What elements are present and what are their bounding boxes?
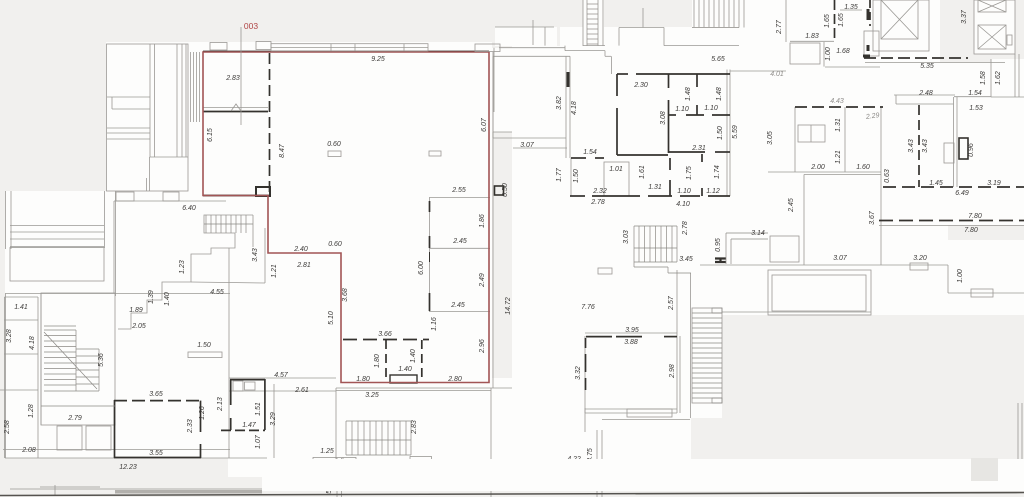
- svg-text:3.03: 3.03: [623, 230, 630, 244]
- svg-text:003: 003: [244, 21, 258, 31]
- svg-text:1.39: 1.39: [148, 290, 155, 304]
- svg-text:3.82: 3.82: [556, 96, 563, 110]
- svg-text:2.61: 2.61: [294, 387, 309, 394]
- svg-text:1.28: 1.28: [28, 404, 35, 418]
- svg-text:2.78: 2.78: [590, 199, 605, 206]
- svg-text:1.83: 1.83: [805, 33, 819, 40]
- svg-text:2.13: 2.13: [217, 397, 224, 412]
- svg-text:1.50: 1.50: [197, 342, 211, 349]
- svg-text:1.58: 1.58: [980, 71, 987, 85]
- svg-text:1.80: 1.80: [374, 354, 381, 368]
- svg-text:0.60: 0.60: [327, 141, 341, 148]
- svg-text:1.21: 1.21: [835, 150, 842, 164]
- svg-text:3.07: 3.07: [833, 255, 848, 262]
- svg-text:1.31: 1.31: [648, 184, 662, 191]
- svg-text:1.50: 1.50: [573, 169, 580, 183]
- svg-text:5.36: 5.36: [98, 353, 105, 367]
- svg-text:1.48: 1.48: [716, 87, 723, 101]
- svg-text:2.81: 2.81: [296, 262, 311, 269]
- svg-text:12.23: 12.23: [119, 464, 137, 471]
- svg-text:2.45: 2.45: [788, 198, 795, 213]
- svg-text:2.57: 2.57: [668, 295, 675, 311]
- svg-text:5.59: 5.59: [732, 125, 739, 139]
- svg-text:6.49: 6.49: [955, 190, 969, 197]
- svg-text:1.12: 1.12: [706, 188, 720, 195]
- svg-text:1.53: 1.53: [969, 105, 983, 112]
- svg-text:2.48: 2.48: [918, 90, 933, 97]
- svg-text:8.47: 8.47: [279, 143, 286, 158]
- svg-text:2.31: 2.31: [691, 145, 706, 152]
- svg-text:1.62: 1.62: [995, 71, 1002, 85]
- svg-text:0.50: 0.50: [502, 183, 509, 197]
- svg-text:2.55: 2.55: [451, 187, 466, 194]
- svg-text:1.47: 1.47: [242, 422, 257, 429]
- svg-text:1.80: 1.80: [356, 376, 370, 383]
- svg-text:3.45: 3.45: [679, 256, 693, 263]
- svg-text:3.29: 3.29: [270, 412, 277, 426]
- svg-text:0.60: 0.60: [328, 241, 342, 248]
- svg-text:9.25: 9.25: [371, 56, 385, 63]
- svg-text:3.65: 3.65: [149, 391, 163, 398]
- svg-text:3.43: 3.43: [908, 139, 915, 153]
- svg-text:3.95: 3.95: [625, 327, 639, 334]
- svg-text:3.05: 3.05: [767, 131, 774, 145]
- svg-text:2.77: 2.77: [776, 19, 783, 35]
- svg-text:3.55: 3.55: [149, 450, 163, 457]
- svg-text:2.83: 2.83: [225, 75, 240, 82]
- svg-text:2.08: 2.08: [21, 447, 36, 454]
- svg-text:5.10: 5.10: [328, 311, 335, 325]
- svg-text:4.18: 4.18: [29, 336, 36, 350]
- svg-text:3.14: 3.14: [751, 230, 765, 237]
- svg-text:3.28: 3.28: [6, 329, 13, 343]
- svg-text:4.43: 4.43: [830, 98, 844, 105]
- svg-text:1.50: 1.50: [717, 126, 724, 140]
- svg-text:1.86: 1.86: [479, 214, 486, 228]
- svg-text:1.60: 1.60: [856, 164, 870, 171]
- svg-text:6.00: 6.00: [418, 261, 425, 275]
- svg-text:4.10: 4.10: [676, 201, 690, 208]
- svg-text:2.33: 2.33: [187, 419, 194, 434]
- svg-text:1.26: 1.26: [199, 406, 206, 420]
- svg-text:1.74: 1.74: [714, 165, 721, 179]
- svg-text:3.08: 3.08: [660, 111, 667, 125]
- svg-text:2.79: 2.79: [67, 415, 82, 422]
- svg-text:1.77: 1.77: [556, 167, 563, 182]
- svg-text:7.76: 7.76: [581, 304, 595, 311]
- svg-text:5.65: 5.65: [711, 56, 725, 63]
- svg-text:2.30: 2.30: [633, 82, 648, 89]
- svg-text:4.57: 4.57: [274, 372, 289, 379]
- svg-text:0.63: 0.63: [884, 169, 891, 183]
- svg-text:2.40: 2.40: [293, 246, 308, 253]
- svg-text:1.40: 1.40: [410, 349, 417, 363]
- svg-text:2.05: 2.05: [131, 323, 146, 330]
- svg-text:6.40: 6.40: [182, 205, 196, 212]
- svg-text:2.83: 2.83: [411, 420, 418, 435]
- svg-text:14.72: 14.72: [505, 297, 512, 315]
- svg-text:1.40: 1.40: [164, 292, 171, 306]
- svg-text:4.55: 4.55: [210, 289, 224, 296]
- svg-text:6.07: 6.07: [481, 117, 488, 132]
- svg-text:1.23: 1.23: [179, 260, 186, 274]
- svg-text:2.80: 2.80: [447, 376, 462, 383]
- svg-text:4.01: 4.01: [770, 71, 784, 78]
- svg-text:1.00: 1.00: [957, 269, 964, 283]
- svg-text:3.19: 3.19: [987, 180, 1001, 187]
- svg-text:2.58: 2.58: [4, 420, 11, 435]
- svg-text:1.45: 1.45: [929, 180, 943, 187]
- svg-text:2.00: 2.00: [810, 164, 825, 171]
- svg-text:3.07: 3.07: [520, 142, 535, 149]
- svg-text:1.54: 1.54: [968, 90, 982, 97]
- svg-text:1.65: 1.65: [824, 14, 831, 28]
- svg-text:1.68: 1.68: [836, 48, 850, 55]
- svg-text:2.78: 2.78: [682, 221, 689, 236]
- svg-text:5.35: 5.35: [920, 63, 934, 70]
- svg-text:6.15: 6.15: [207, 128, 214, 142]
- svg-text:1.10: 1.10: [704, 105, 718, 112]
- svg-text:3.88: 3.88: [624, 339, 638, 346]
- svg-text:3.43: 3.43: [252, 248, 259, 262]
- svg-text:1.54: 1.54: [583, 149, 597, 156]
- svg-text:7.80: 7.80: [964, 227, 978, 234]
- svg-text:1.65: 1.65: [838, 13, 845, 27]
- svg-text:1.10: 1.10: [675, 106, 689, 113]
- svg-text:0.96: 0.96: [968, 143, 975, 157]
- svg-text:1.75: 1.75: [686, 166, 693, 180]
- svg-text:3.66: 3.66: [378, 331, 392, 338]
- svg-text:1.00: 1.00: [825, 47, 832, 61]
- svg-text:1.48: 1.48: [685, 87, 692, 101]
- svg-text:1.35: 1.35: [844, 4, 858, 11]
- svg-text:3.20: 3.20: [913, 255, 927, 262]
- svg-text:3.32: 3.32: [575, 366, 582, 380]
- svg-text:3.68: 3.68: [342, 288, 349, 302]
- svg-text:3.67: 3.67: [869, 210, 876, 225]
- svg-text:1.89: 1.89: [129, 307, 143, 314]
- svg-text:2.98: 2.98: [669, 364, 676, 379]
- svg-text:1.51: 1.51: [255, 402, 262, 416]
- svg-text:1.07: 1.07: [255, 434, 262, 449]
- svg-text:1.21: 1.21: [271, 264, 278, 278]
- svg-text:4.18: 4.18: [571, 101, 578, 115]
- svg-text:1.31: 1.31: [835, 118, 842, 132]
- svg-text:7.80: 7.80: [968, 213, 982, 220]
- svg-text:2.49: 2.49: [479, 273, 486, 288]
- svg-text:3.25: 3.25: [365, 392, 379, 399]
- svg-text:1.40: 1.40: [398, 366, 412, 373]
- svg-text:2.96: 2.96: [479, 339, 486, 354]
- svg-text:1.41: 1.41: [14, 304, 28, 311]
- svg-text:1.25: 1.25: [320, 448, 334, 455]
- svg-text:1.01: 1.01: [609, 166, 623, 173]
- svg-text:2.45: 2.45: [452, 238, 467, 245]
- svg-text:1.10: 1.10: [677, 188, 691, 195]
- svg-text:1.16: 1.16: [431, 317, 438, 331]
- svg-text:0.95: 0.95: [715, 238, 722, 252]
- svg-text:3.43: 3.43: [922, 139, 929, 153]
- svg-text:2.45: 2.45: [450, 302, 465, 309]
- svg-text:2.32: 2.32: [592, 188, 607, 195]
- svg-text:3.37: 3.37: [961, 9, 968, 24]
- svg-text:1.61: 1.61: [639, 165, 646, 179]
